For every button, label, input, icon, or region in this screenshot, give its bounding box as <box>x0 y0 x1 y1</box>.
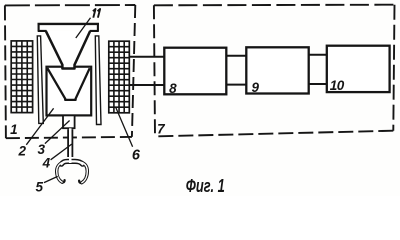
hook 5 inner channel (white) <box>62 161 83 164</box>
induction coil 6 (right, crosshatched) <box>109 41 130 113</box>
induction coil 1 (left, crosshatched) <box>11 41 32 113</box>
funnel 11 right flange lip <box>90 24 99 32</box>
hook 5 left tip <box>62 180 65 182</box>
leader line for label 4 <box>51 144 72 160</box>
hook 5 left arm (black) <box>57 162 63 182</box>
leader line for label 3 <box>45 121 70 144</box>
leader line for label 6 <box>116 108 133 147</box>
leader line for label 5 <box>44 176 58 182</box>
block 10 <box>327 46 390 92</box>
right border <box>132 5 135 137</box>
svg-text:9: 9 <box>251 80 259 95</box>
block 9 <box>246 47 308 93</box>
wire 8-9 upper <box>226 55 246 57</box>
svg-text:10: 10 <box>330 78 345 93</box>
label 11 (two hand-drawn strokes) <box>93 9 100 18</box>
svg-text:4: 4 <box>42 156 51 171</box>
left border <box>154 5 155 136</box>
svg-text:6: 6 <box>132 148 141 164</box>
leader line for label 2 <box>26 108 53 145</box>
wire from coil to block 8 (lower) <box>129 84 164 86</box>
right side screen plate <box>95 36 101 125</box>
dashed enclosure box of furnace unit (left): top border <box>5 4 135 6</box>
left side screen plate <box>37 36 43 124</box>
hook 5 cap (black) <box>62 161 83 164</box>
svg-text:Фиг. 1: Фиг. 1 <box>186 176 225 196</box>
svg-text:8: 8 <box>169 81 177 96</box>
stem rod 4 <box>67 129 73 157</box>
wire 9-10 lower <box>309 83 327 85</box>
funnel 11 left flange lip <box>38 24 47 32</box>
bottom border <box>155 131 393 137</box>
block 8 <box>164 48 226 95</box>
hook 5 right arm (black) <box>82 162 88 182</box>
wire 8-9 lower <box>226 84 246 86</box>
left border <box>5 5 6 138</box>
funnel 11 top flange bar <box>38 23 100 25</box>
right border <box>393 5 394 131</box>
funnel 11 V-shaped body <box>46 31 90 69</box>
wire from coil to block 8 (upper) <box>129 56 164 58</box>
holder block 3 under crucible <box>63 115 75 128</box>
bottom border <box>6 137 132 138</box>
crucible 2 (water-cooled mould) <box>47 67 92 116</box>
svg-text:5: 5 <box>36 179 44 194</box>
V-shaped ingot cavity inside crucible <box>47 68 89 100</box>
wire 9-10 upper <box>309 54 327 56</box>
leader line for label 11 <box>76 18 91 38</box>
svg-text:1: 1 <box>10 122 18 137</box>
hook 5 right tip <box>79 181 82 183</box>
svg-text:2: 2 <box>18 144 27 159</box>
dashed enclosure box 7 (right): top border <box>154 4 395 7</box>
